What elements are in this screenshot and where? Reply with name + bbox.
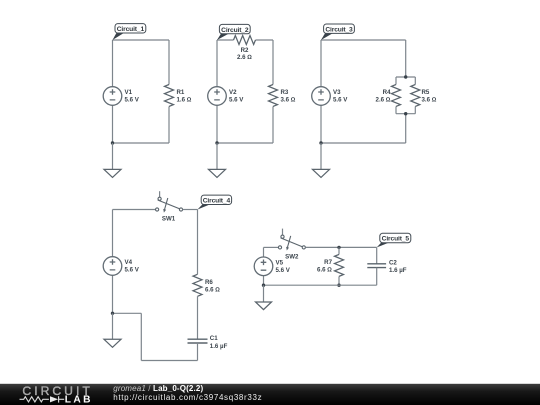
svg-text:R1: R1 — [177, 89, 185, 96]
svg-text:R5: R5 — [422, 89, 430, 96]
junction dot R7 bottom — [337, 284, 340, 287]
svg-text:2.6 Ω: 2.6 Ω — [237, 54, 252, 61]
wire top-left Circuit_2 — [217, 39, 234, 41]
svg-text:C2: C2 — [389, 260, 397, 267]
resistor R4 — [392, 85, 401, 107]
svg-text:3.6 Ω: 3.6 Ω — [281, 97, 296, 104]
wire below parallel pair — [405, 114, 407, 143]
wire bottom riser — [140, 313, 142, 360]
wire left lower V5 — [263, 276, 265, 286]
wire top-right Circuit_2 — [256, 39, 274, 41]
label V5 5.6 V — [276, 260, 291, 275]
resistor R1 — [165, 85, 174, 107]
svg-text:http://circuitlab.com/c3974sq3: http://circuitlab.com/c3974sq38r33z — [113, 393, 262, 402]
svg-text:V2: V2 — [229, 89, 237, 96]
voltage source V2 — [208, 87, 227, 106]
wire ground stub circuit4 — [112, 313, 114, 339]
wire C1 down — [197, 343, 199, 361]
wire top Circuit_3 — [321, 39, 406, 41]
wire left lower V4 — [112, 275, 114, 313]
label C2 1.6 uF — [389, 260, 407, 275]
wire corner down to C2 — [376, 247, 378, 263]
svg-text:R3: R3 — [281, 89, 289, 96]
label V1 5.6 V — [125, 89, 140, 104]
wire bottom Circuit_5 — [264, 284, 377, 286]
svg-text:V4: V4 — [125, 259, 133, 266]
wire left lower V2 — [216, 105, 218, 143]
resistor R5 — [411, 85, 420, 107]
ground circuit1 — [104, 169, 121, 177]
voltage source V4 — [103, 257, 122, 276]
wire top-left to switch — [113, 209, 156, 211]
switch SW2 — [278, 229, 305, 251]
svg-text:Circuit_5: Circuit_5 — [382, 236, 410, 243]
node label Circuit_4 — [198, 195, 232, 209]
voltage source V3 — [312, 87, 331, 106]
logo resistor zigzag and diode — [20, 396, 65, 402]
wire bottom Circuit_4 — [141, 360, 197, 362]
junction dot parallel bottom — [404, 112, 407, 115]
node label Circuit_5 — [377, 233, 411, 247]
wire right lower R1 — [168, 107, 170, 144]
svg-text:5.6 V: 5.6 V — [276, 267, 291, 274]
voltage source V1 — [103, 87, 122, 106]
junction dot R7 top — [337, 246, 340, 249]
wire ground stub circuit5 — [263, 285, 265, 302]
wire ground stub circuit1 — [112, 143, 114, 169]
wire R7 bottom stub — [338, 276, 340, 285]
wire left lower V1 — [112, 105, 114, 143]
svg-text:SW1: SW1 — [162, 216, 176, 223]
wire bottom Circuit_1 — [113, 142, 170, 144]
wire bottom Circuit_3 — [321, 142, 406, 144]
label C1 1.6 uF — [210, 335, 228, 350]
svg-text:Circuit_1: Circuit_1 — [117, 26, 145, 33]
svg-text:LAB: LAB — [65, 395, 93, 405]
wire R7 to corner — [339, 246, 377, 248]
svg-text:2.6 Ω: 2.6 Ω — [376, 97, 391, 104]
wire top Circuit_1 — [113, 39, 170, 41]
capacitor C1 — [188, 339, 208, 343]
svg-text:R6: R6 — [205, 279, 213, 286]
label R6 6.6 ohm — [205, 279, 220, 294]
svg-text:1.6 µF: 1.6 µF — [210, 343, 228, 350]
svg-text:5.6 V: 5.6 V — [333, 97, 348, 104]
node label Circuit_2 — [217, 24, 250, 40]
svg-text:V3: V3 — [333, 89, 341, 96]
svg-text:R2: R2 — [241, 47, 249, 54]
resistor R7 — [335, 254, 344, 276]
junction dot circuit4 — [111, 312, 114, 315]
svg-text:5.6 V: 5.6 V — [125, 267, 140, 274]
label R3 3.6 ohm — [281, 89, 296, 104]
junction dot circuit1 bottom — [111, 141, 114, 144]
ground circuit2 — [209, 169, 226, 177]
footer bar — [0, 384, 540, 405]
svg-text:6.6 Ω: 6.6 Ω — [317, 267, 332, 274]
label R2 2.6 ohm — [237, 47, 252, 61]
label V3 5.6 V — [333, 89, 348, 104]
junction dot circuit3 bottom — [319, 141, 322, 144]
wire R7 top stub — [338, 247, 340, 254]
capacitor C2 — [367, 264, 386, 268]
wire left upper V1 — [112, 40, 114, 87]
svg-text:1.6 Ω: 1.6 Ω — [177, 97, 192, 104]
svg-text:3.6 Ω: 3.6 Ω — [422, 97, 437, 104]
svg-text:gromea1 / Lab_0-Q(2.2): gromea1 / Lab_0-Q(2.2) — [113, 384, 203, 393]
svg-text:V1: V1 — [125, 89, 133, 96]
wire left upper V3 — [320, 40, 322, 87]
label R4 2.6 ohm — [376, 89, 392, 104]
wire left lower V3 — [320, 105, 322, 143]
label R7 6.6 ohm — [317, 259, 333, 274]
wire bottom Circuit_2 — [217, 142, 273, 144]
wire parallel top bar — [396, 77, 415, 85]
wire right to parallel pair — [405, 40, 407, 77]
label V2 5.6 V — [229, 89, 244, 104]
wire switch to corner — [183, 209, 198, 211]
junction dot circuit2 bottom — [215, 141, 218, 144]
svg-text:Circuit_2: Circuit_2 — [221, 27, 249, 34]
wire ground stub circuit3 — [320, 143, 322, 169]
svg-text:C1: C1 — [210, 335, 218, 342]
svg-text:5.6 V: 5.6 V — [125, 97, 140, 104]
junction dot circuit5 left — [262, 284, 265, 287]
switch SW1 — [156, 191, 183, 212]
svg-text:Circuit_4: Circuit_4 — [203, 198, 231, 205]
ground circuit5 — [256, 302, 272, 310]
logo diode triangle — [50, 396, 58, 402]
resistor R6 — [193, 274, 202, 296]
wire ground stub circuit2 — [216, 143, 218, 169]
wire switch to R7 — [305, 246, 339, 248]
ground circuit4 — [104, 339, 121, 347]
label R5 3.6 ohm — [422, 89, 437, 104]
svg-text:6.6 Ω: 6.6 Ω — [205, 286, 220, 293]
wire corner down to R6 — [197, 210, 199, 275]
wire right upper R1 — [168, 40, 170, 85]
resistor R2 — [234, 36, 256, 45]
wire top-left to switch SW2 — [264, 246, 279, 248]
label V4 5.6 V — [125, 259, 140, 274]
svg-text:5.6 V: 5.6 V — [229, 97, 244, 104]
svg-text:SW2: SW2 — [285, 254, 299, 261]
wire left upper V2 — [216, 40, 218, 87]
wire left upper V4 — [112, 210, 114, 257]
label R1 1.6 ohm — [177, 89, 192, 104]
wire left upper V5 — [263, 247, 265, 257]
svg-text:1.6 µF: 1.6 µF — [389, 267, 407, 274]
wire R6 to C1 — [197, 296, 199, 339]
voltage source V5 — [254, 257, 273, 276]
svg-text:R4: R4 — [383, 89, 391, 96]
node label Circuit_3 — [321, 24, 354, 40]
wire to left junction — [113, 312, 142, 314]
wire right upper R3 — [272, 40, 274, 85]
junction dot parallel top — [404, 75, 407, 78]
ground circuit3 — [313, 169, 330, 177]
svg-text:R7: R7 — [324, 259, 332, 266]
wire right lower R3 — [272, 107, 274, 144]
svg-text:Circuit_3: Circuit_3 — [325, 26, 353, 33]
resistor R3 — [269, 85, 278, 107]
node label Circuit_1 — [113, 24, 146, 40]
wire parallel bottom bar — [396, 107, 415, 114]
wire C2 down — [376, 268, 378, 286]
svg-text:V5: V5 — [276, 260, 284, 267]
